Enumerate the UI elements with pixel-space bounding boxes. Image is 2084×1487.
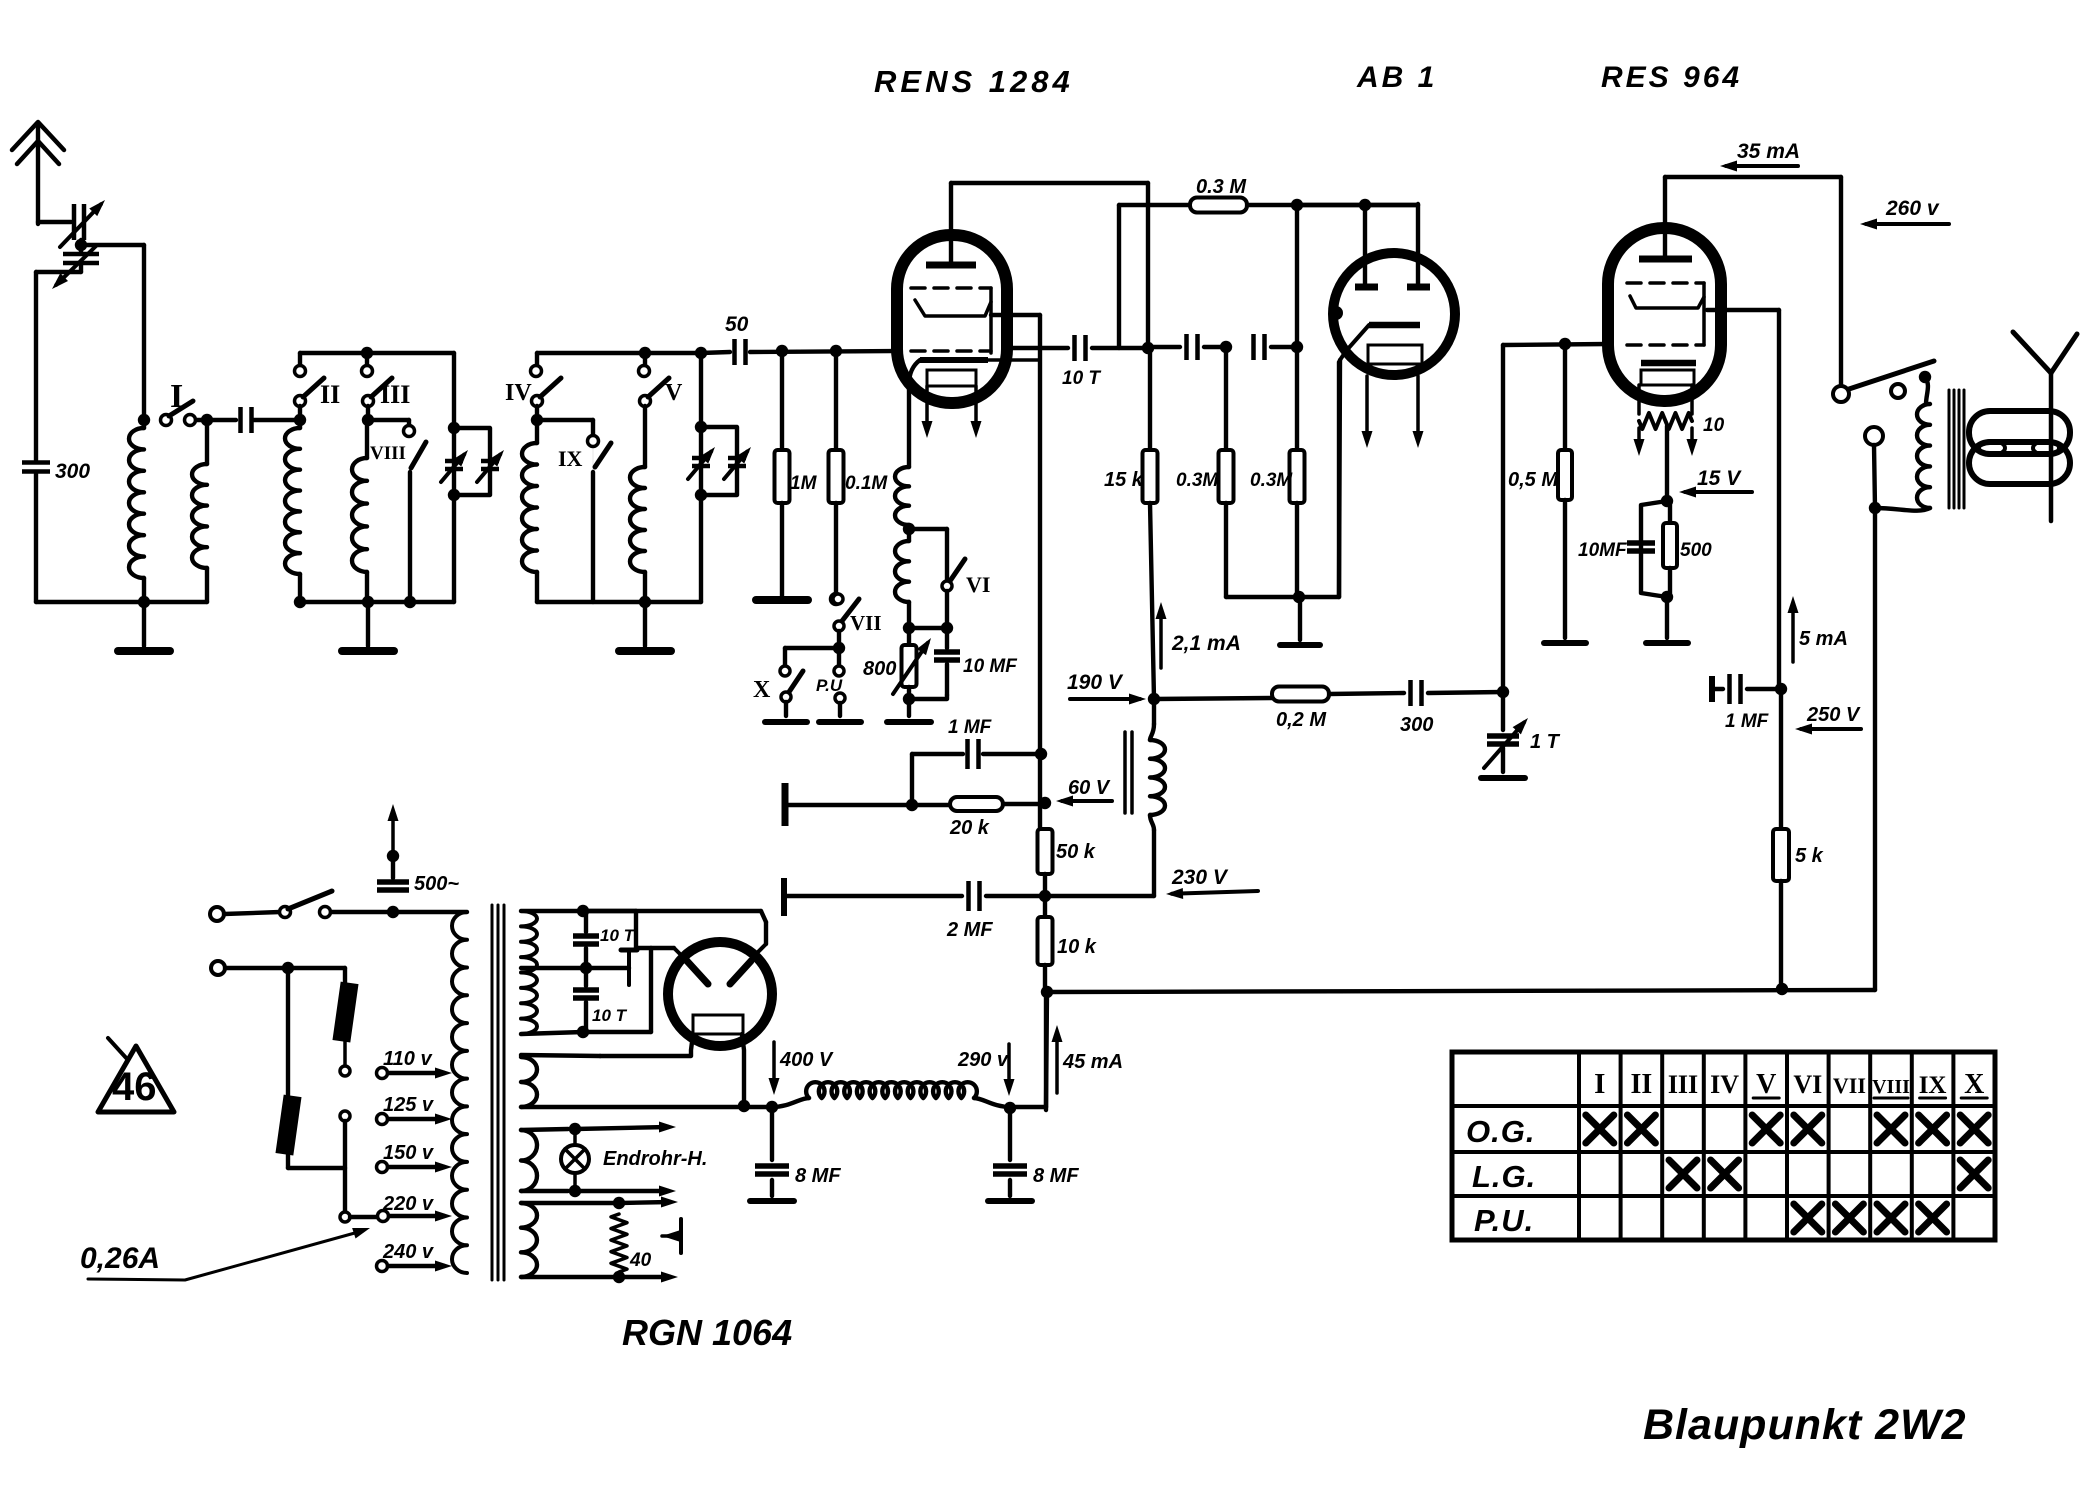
- svg-text:10: 10: [1703, 415, 1725, 436]
- svg-text:15 V: 15 V: [1697, 467, 1742, 490]
- svg-text:L.G.: L.G.: [1472, 1159, 1536, 1194]
- svg-text:III: III: [1668, 1070, 1698, 1099]
- svg-text:1M: 1M: [790, 473, 818, 494]
- svg-text:0.3M: 0.3M: [1176, 470, 1219, 491]
- svg-text:X: X: [753, 677, 771, 703]
- svg-text:2 MF: 2 MF: [946, 919, 993, 941]
- svg-text:VII: VII: [850, 611, 882, 635]
- svg-text:15 k: 15 k: [1104, 469, 1144, 491]
- svg-text:260 v: 260 v: [1885, 197, 1940, 220]
- svg-text:500~: 500~: [414, 873, 459, 895]
- svg-text:Blaupunkt 2W2: Blaupunkt 2W2: [1643, 1401, 1967, 1449]
- svg-text:RGN 1064: RGN 1064: [622, 1312, 792, 1353]
- svg-text:IV: IV: [1710, 1070, 1739, 1099]
- svg-text:45 mA: 45 mA: [1062, 1051, 1123, 1073]
- svg-text:10 T: 10 T: [600, 926, 636, 945]
- svg-text:P.U.: P.U.: [1474, 1203, 1534, 1238]
- svg-text:0.1M: 0.1M: [845, 473, 888, 494]
- svg-text:8 MF: 8 MF: [1033, 1165, 1079, 1187]
- svg-text:VI: VI: [1793, 1070, 1822, 1099]
- svg-text:125 v: 125 v: [383, 1094, 435, 1116]
- svg-text:VII: VII: [1833, 1073, 1866, 1098]
- svg-text:5 mA: 5 mA: [1799, 628, 1848, 650]
- svg-text:110 v: 110 v: [383, 1048, 433, 1070]
- svg-text:300: 300: [1400, 714, 1433, 736]
- svg-text:I: I: [170, 378, 183, 415]
- svg-text:1 MF: 1 MF: [1725, 711, 1770, 732]
- svg-text:35 mA: 35 mA: [1737, 140, 1800, 163]
- svg-text:II: II: [1631, 1069, 1653, 1100]
- svg-text:250 V: 250 V: [1806, 704, 1861, 726]
- svg-text:VI: VI: [966, 572, 990, 597]
- svg-text:1 T: 1 T: [1530, 731, 1561, 753]
- svg-text:IX: IX: [558, 446, 583, 471]
- svg-text:300: 300: [55, 460, 90, 483]
- svg-text:III: III: [380, 380, 410, 409]
- svg-text:50: 50: [725, 313, 749, 336]
- svg-text:V: V: [1756, 1069, 1776, 1100]
- svg-text:0.3 M: 0.3 M: [1196, 176, 1247, 198]
- svg-text:RENS 1284: RENS 1284: [874, 64, 1074, 99]
- svg-text:RES 964: RES 964: [1601, 61, 1742, 94]
- svg-text:500: 500: [1680, 540, 1712, 561]
- svg-text:400 V: 400 V: [779, 1049, 834, 1071]
- svg-text:AB 1: AB 1: [1356, 61, 1437, 94]
- svg-text:Endrohr-H.: Endrohr-H.: [603, 1148, 707, 1170]
- svg-text:0.3M: 0.3M: [1250, 470, 1293, 491]
- svg-text:10 T: 10 T: [1062, 368, 1101, 389]
- svg-text:50 k: 50 k: [1056, 841, 1096, 863]
- svg-text:O.G.: O.G.: [1466, 1114, 1535, 1149]
- svg-text:VIII: VIII: [1872, 1076, 1910, 1098]
- svg-text:800: 800: [863, 658, 896, 680]
- svg-text:V: V: [665, 380, 683, 406]
- svg-text:40: 40: [629, 1250, 652, 1271]
- svg-text:190 V: 190 V: [1067, 671, 1124, 694]
- svg-text:240 v: 240 v: [382, 1241, 435, 1263]
- svg-text:0,5 M: 0,5 M: [1508, 469, 1559, 491]
- svg-text:20 k: 20 k: [949, 817, 990, 839]
- svg-text:I: I: [1594, 1068, 1605, 1100]
- svg-text:0,26A: 0,26A: [80, 1242, 160, 1275]
- svg-text:IX: IX: [1919, 1072, 1947, 1099]
- svg-text:X: X: [1964, 1069, 1984, 1100]
- svg-text:5 k: 5 k: [1795, 845, 1824, 867]
- svg-text:0,2 M: 0,2 M: [1276, 709, 1327, 731]
- svg-text:P.U: P.U: [816, 676, 843, 695]
- svg-text:VIII: VIII: [370, 443, 406, 464]
- svg-text:46: 46: [112, 1065, 157, 1109]
- svg-text:10 T: 10 T: [592, 1006, 628, 1025]
- svg-text:IV: IV: [505, 380, 532, 406]
- svg-text:10MF: 10MF: [1578, 540, 1628, 561]
- svg-text:220 v: 220 v: [382, 1193, 435, 1215]
- svg-text:1 MF: 1 MF: [948, 717, 993, 738]
- svg-text:2,1 mA: 2,1 mA: [1171, 632, 1241, 655]
- svg-text:10 k: 10 k: [1057, 936, 1097, 958]
- svg-text:230 V: 230 V: [1171, 866, 1229, 889]
- svg-text:290 v: 290 v: [957, 1049, 1010, 1071]
- svg-text:60 V: 60 V: [1068, 777, 1111, 799]
- svg-text:II: II: [320, 380, 340, 409]
- svg-text:10 MF: 10 MF: [963, 656, 1018, 677]
- svg-text:8 MF: 8 MF: [795, 1165, 841, 1187]
- svg-text:150 v: 150 v: [383, 1142, 435, 1164]
